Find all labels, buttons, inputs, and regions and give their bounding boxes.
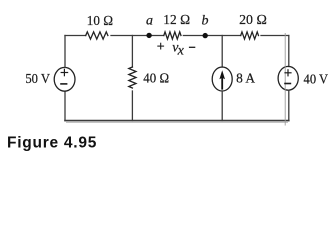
svg-text:b: b <box>202 14 209 29</box>
svg-text:a: a <box>146 14 153 29</box>
svg-text:12 Ω: 12 Ω <box>163 13 190 28</box>
wire 40V source to bottom-right corner <box>288 90 290 120</box>
voltage source V2 polarity plus <box>284 69 291 76</box>
wire 40ohm branch top <box>131 36 133 68</box>
wire 20ohm to top-right corner <box>261 35 289 37</box>
svg-text:40 Ω: 40 Ω <box>143 71 169 86</box>
wire top-left segment <box>65 35 86 37</box>
ghost scan artifact line <box>284 33 286 126</box>
wire 8A branch bottom <box>221 91 223 121</box>
node b junction dot <box>203 33 208 38</box>
wire bottom <box>65 120 289 122</box>
wire left branch bottom <box>64 91 66 120</box>
resistor R 40ohm vertical <box>129 67 136 88</box>
voltage source V2 40V circle <box>278 66 298 90</box>
resistor R 20ohm <box>241 32 259 39</box>
label vx minus sign <box>189 46 195 48</box>
svg-text:20 Ω: 20 Ω <box>239 13 267 28</box>
current source I1 arrow <box>219 70 225 89</box>
scan shadow under bottom wire <box>66 121 288 123</box>
voltage source V1 50V circle <box>54 67 75 91</box>
wire right branch down to 40V source <box>288 36 290 67</box>
svg-text:8 A: 8 A <box>236 72 256 87</box>
svg-text:50 V: 50 V <box>25 72 50 87</box>
wire 10ohm to node a <box>111 35 164 37</box>
label vx plus sign <box>157 43 164 50</box>
wire 40ohm branch bottom <box>131 91 133 121</box>
svg-text:x: x <box>177 43 185 58</box>
wire 12ohm to 20ohm <box>183 35 240 37</box>
voltage source V2 polarity minus <box>284 83 291 85</box>
voltage source V1 polarity plus <box>61 69 69 77</box>
svg-text:40 V: 40 V <box>304 72 329 87</box>
wire left branch top <box>64 36 66 68</box>
svg-text:10 Ω: 10 Ω <box>87 14 114 29</box>
node a junction dot <box>146 33 151 38</box>
resistor R 12ohm <box>164 32 181 39</box>
svg-text:Figure 4.95: Figure 4.95 <box>7 135 97 152</box>
wire 8A branch top <box>221 36 223 68</box>
resistor R 10ohm <box>86 32 108 39</box>
voltage source V1 polarity minus <box>60 83 67 85</box>
current source I1 8A circle <box>212 67 232 91</box>
